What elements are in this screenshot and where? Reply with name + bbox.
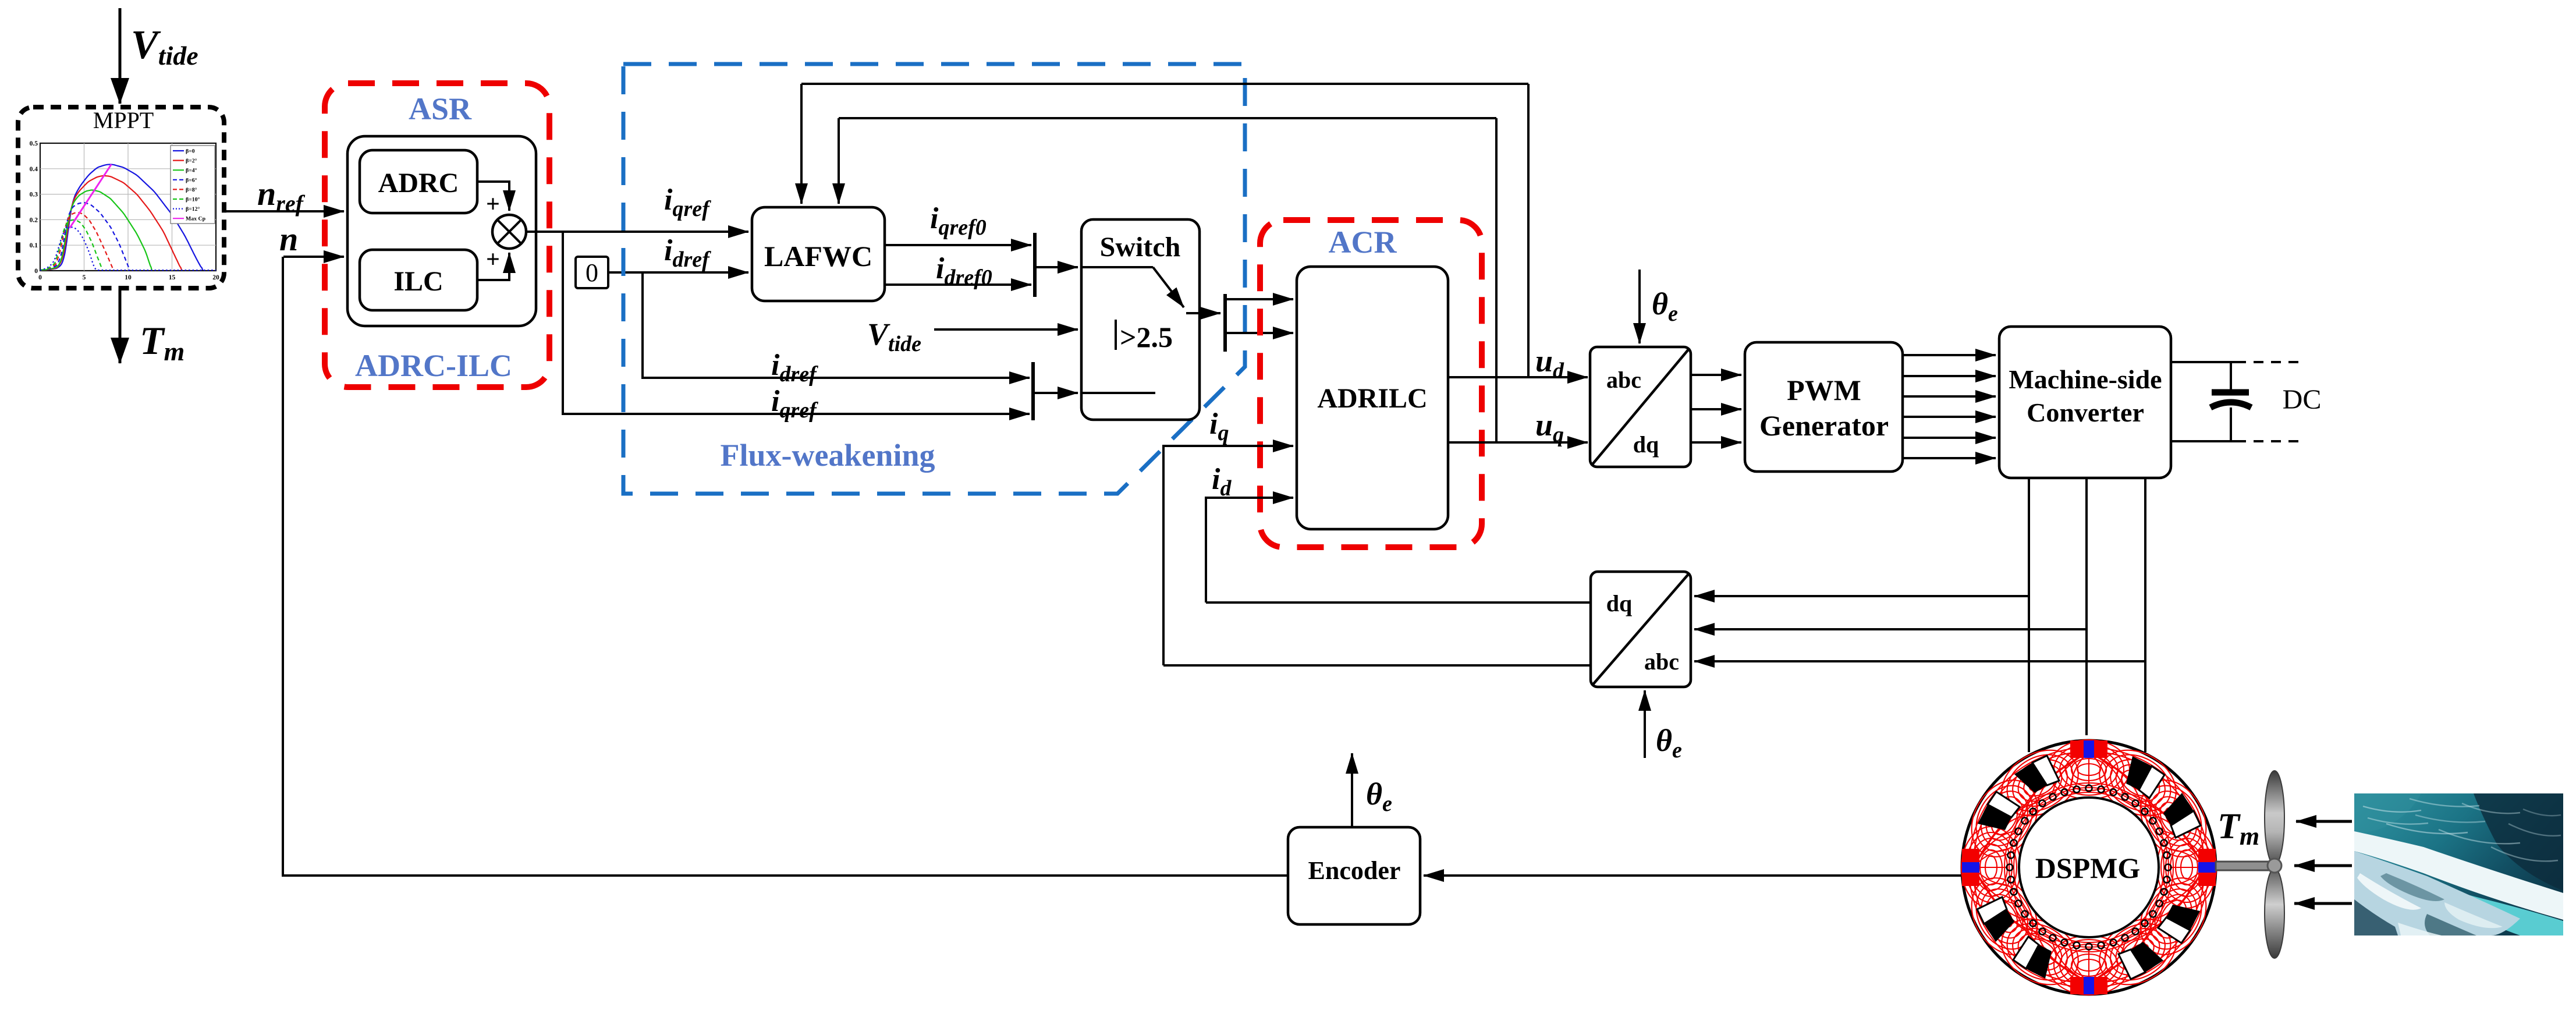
block ADRC <box>360 150 477 213</box>
block ILC <box>360 250 477 310</box>
svg-text:ADRILC: ADRILC <box>1317 383 1427 414</box>
wire theta_e to abc-dq <box>1638 270 1641 343</box>
MPPT curve beta=4 <box>40 190 152 271</box>
svg-text:β=0: β=0 <box>186 148 195 155</box>
wire abcdq to PWM c <box>1691 441 1741 444</box>
wire ILC to summer <box>477 253 509 280</box>
wire bar2 to ADRILC in1 <box>1225 298 1293 300</box>
wire top feedback u_d <box>801 83 1528 85</box>
wire u_d feedback vertical <box>1527 84 1530 377</box>
image ocean wave photo <box>2354 793 2563 935</box>
wire PWM to converter 1 <box>1903 354 1996 356</box>
wire feedback into LAFWC top 2 <box>838 118 840 204</box>
svg-text:15: 15 <box>169 274 176 281</box>
wire bar lower to switch <box>1033 392 1078 394</box>
svg-text:5: 5 <box>83 274 86 281</box>
MPPT curve beta=12 <box>40 227 216 270</box>
wire Encoder theta_e up <box>1351 753 1353 827</box>
wire dqabc out d <box>1206 601 1591 604</box>
svg-text:ADRC-ILC: ADRC-ILC <box>355 348 512 383</box>
wire u_q feedback vertical <box>1495 118 1498 442</box>
svg-text:+: + <box>486 246 500 273</box>
svg-text:DC: DC <box>2283 384 2322 415</box>
svg-text:abc: abc <box>1606 367 1641 393</box>
svg-text:ACR: ACR <box>1329 225 1397 260</box>
svg-text:0.1: 0.1 <box>30 242 38 249</box>
MPPT curve beta=10 <box>40 220 102 271</box>
arrow V_tide input <box>119 8 122 104</box>
wire DC top <box>2171 361 2246 363</box>
wire ADRC to summer <box>477 182 509 211</box>
svg-text:ADRC: ADRC <box>378 168 459 199</box>
MPPT chart legend <box>171 146 215 224</box>
wire i_qref0 <box>885 244 1031 246</box>
svg-text:0.2: 0.2 <box>30 217 38 224</box>
box ASR dashed <box>325 83 549 387</box>
turbine hub <box>2268 859 2282 873</box>
svg-text:LAFWC: LAFWC <box>764 240 872 272</box>
box ACR dashed <box>1260 220 1482 547</box>
bus bar collector output <box>1223 294 1227 352</box>
wire feedback into LAFWC top 1 <box>800 84 803 204</box>
svg-text:Generator: Generator <box>1759 409 1889 442</box>
node junction i_dref branch <box>643 272 1030 378</box>
wire phase b vertical <box>2085 478 2088 735</box>
svg-text:PWM: PWM <box>1787 374 1861 406</box>
wire abcdq to PWM b <box>1691 408 1741 410</box>
wire PWM to converter 6 <box>1903 457 1996 459</box>
svg-text:Encoder: Encoder <box>1308 856 1401 885</box>
block abc-dq transform <box>1590 347 1691 467</box>
svg-text:Switch: Switch <box>1100 232 1181 263</box>
switch output segment <box>1186 312 1200 314</box>
wire i_qref from summer to LAFWC <box>526 231 748 233</box>
wire DC top dashed <box>2254 361 2302 363</box>
svg-text:10: 10 <box>125 274 132 281</box>
summer junction circle <box>492 215 526 249</box>
block LAFWC <box>752 207 885 301</box>
wire theta_e into dq-abc <box>1644 690 1646 758</box>
svg-text:ASR: ASR <box>409 91 472 126</box>
turbine blade upper <box>2265 771 2284 865</box>
svg-text:dq: dq <box>1633 431 1659 458</box>
capacitor DC link <box>2230 362 2232 389</box>
MPPT chart plot area + grid <box>40 143 216 271</box>
wire u_q <box>1448 441 1588 444</box>
block zero box <box>576 257 608 288</box>
svg-text:Converter: Converter <box>2027 398 2144 427</box>
wire phase a vertical <box>2028 478 2030 752</box>
svg-text:+: + <box>486 191 500 218</box>
wire PWM to converter 4 <box>1903 416 1996 418</box>
wire n_ref <box>224 210 344 212</box>
wire top feedback u_q <box>839 117 1496 119</box>
MPPT curve beta=2 <box>40 176 182 270</box>
wire phase c to dqabc <box>1694 660 2145 662</box>
switch threshold tick <box>1115 320 1117 350</box>
svg-text:β=2°: β=2° <box>186 158 197 164</box>
svg-text:0.3: 0.3 <box>30 192 38 199</box>
svg-text:0: 0 <box>34 268 38 275</box>
svg-text:Machine-side: Machine-side <box>2009 364 2162 394</box>
svg-text:0: 0 <box>38 274 42 281</box>
svg-text:β=6°: β=6° <box>186 177 197 183</box>
svg-text:MPPT: MPPT <box>93 107 154 133</box>
turbine shaft <box>2216 862 2274 870</box>
MPPT curve beta=8 <box>40 212 113 271</box>
MPPT curve beta=0 <box>40 165 203 271</box>
svg-text:abc: abc <box>1644 648 1679 675</box>
wire phase c vertical <box>2144 478 2146 752</box>
node junction i_qref branch <box>563 232 1030 414</box>
MPPT Max Cp line <box>70 164 112 228</box>
box ASR inner container <box>347 136 536 326</box>
svg-text:Max Cp: Max Cp <box>186 216 206 222</box>
wire DC bottom <box>2171 440 2246 442</box>
wire PWM to converter 5 <box>1903 437 1996 439</box>
block Encoder <box>1288 827 1420 924</box>
svg-text:β=4°: β=4° <box>186 168 197 174</box>
bus bar collector 1 <box>1033 233 1037 297</box>
wire i_dref0 <box>885 283 1031 286</box>
switch input segment <box>1081 266 1153 268</box>
svg-text:β=10°: β=10° <box>186 197 200 203</box>
svg-text:Flux-weakening: Flux-weakening <box>720 438 935 473</box>
arrow tide flow 2 <box>2294 864 2352 867</box>
svg-text:DSPMG: DSPMG <box>2035 852 2141 884</box>
turbine blade lower <box>2265 869 2284 958</box>
svg-text:n: n <box>279 220 298 258</box>
MPPT curve beta=6 <box>40 203 130 270</box>
wire switch output to bar2 <box>1200 312 1220 314</box>
machine DSPMG stator-rotor graphic <box>1962 740 2216 994</box>
svg-text:0.5: 0.5 <box>30 140 38 147</box>
wire phase a to dqabc <box>1694 595 2029 597</box>
switch lower stub <box>1081 392 1155 394</box>
svg-text:0: 0 <box>586 258 598 287</box>
svg-text:β=8°: β=8° <box>186 187 197 193</box>
wire DSPMG to Encoder <box>1424 874 1963 877</box>
wire i_dref from zero to LAFWC <box>608 271 748 274</box>
svg-text:0.4: 0.4 <box>30 166 38 173</box>
wire V_tide to switch <box>934 328 1078 331</box>
wire abcdq to PWM a <box>1691 374 1741 376</box>
svg-text:β=12°: β=12° <box>186 206 200 212</box>
wire dqabc out q <box>1163 664 1591 667</box>
wire n <box>283 256 344 258</box>
wire bar2 to ADRILC in2 <box>1225 332 1293 334</box>
svg-text:ILC: ILC <box>393 266 443 297</box>
arrow tide flow 3 <box>2294 902 2352 905</box>
wire Encoder speed feedback <box>283 257 1288 876</box>
block Switch <box>1081 219 1200 420</box>
wire phase b to dqabc <box>1694 628 2087 630</box>
svg-text:>2.5: >2.5 <box>1120 321 1173 353</box>
arrow T_m output <box>119 289 122 363</box>
bus bar collector 2 lower <box>1031 362 1035 420</box>
block ADRILC <box>1297 267 1448 529</box>
box Flux-weakening dashed <box>623 64 1245 494</box>
svg-text:20: 20 <box>212 274 219 281</box>
switch lever arrow <box>1153 267 1184 307</box>
svg-text:dq: dq <box>1606 590 1633 616</box>
wire i_d into ADRILC <box>1206 498 1293 603</box>
arrow tide flow 1 <box>2296 820 2352 823</box>
wire PWM to converter 3 <box>1903 395 1996 398</box>
wire bar1 to switch <box>1035 266 1078 268</box>
wire DC bottom dashed <box>2254 440 2302 442</box>
block Machine-side Converter <box>1999 327 2171 478</box>
block MPPT outer dashed box <box>18 107 224 288</box>
block PWM Generator <box>1745 342 1903 472</box>
wire i_q into ADRILC <box>1163 446 1293 665</box>
wire u_d <box>1448 376 1588 378</box>
wire PWM to converter 2 <box>1903 375 1996 377</box>
block dq-abc transform <box>1591 572 1691 687</box>
